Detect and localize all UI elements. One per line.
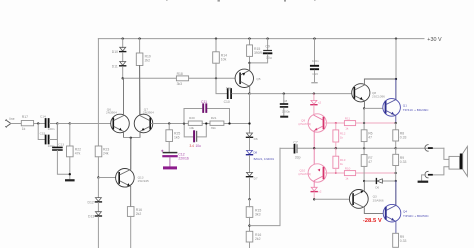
svg-text:10k: 10k: [221, 57, 227, 61]
svg-text:3.4: 3.4: [190, 144, 195, 148]
resistor R23: [95, 146, 102, 157]
diode D8 blue: [247, 150, 253, 154]
wire Q12 collector with arrow: [354, 181, 364, 196]
transistor Q12 2SA966: [349, 190, 368, 209]
diode D13: [95, 212, 101, 216]
wire C7 to output rail: [298, 147, 314, 149]
transistor Q9 2SA673 pink: [308, 114, 326, 132]
node A input split: [37, 122, 39, 124]
diode D12: [95, 198, 101, 202]
wire Q11 collector: [241, 82, 250, 94]
svg-text:0.33: 0.33: [400, 160, 407, 164]
wire R14 to node E: [215, 63, 217, 78]
wire Q8 base row: [250, 93, 354, 95]
capacitor C16 rail decoupling: [313, 37, 315, 39]
connector line input jack: [6, 120, 11, 127]
wire tail to Q13 collector: [130, 138, 132, 169]
diode D10: [120, 47, 126, 51]
wire D13 to bottom edge: [97, 217, 99, 248]
wire rail to R14: [215, 39, 217, 52]
resistor R21 39k: [210, 121, 224, 125]
wire R23 to node: [97, 157, 99, 178]
resistor R17 tail: [127, 207, 134, 217]
resistor R19 2k2: [136, 53, 143, 66]
wire R19 to Q7 collector: [139, 66, 141, 116]
node B C13 tap: [56, 122, 58, 124]
svg-text:0.33: 0.33: [400, 239, 407, 243]
diode D5 pink: [311, 187, 317, 191]
wire rail down to node O: [395, 39, 397, 99]
diode D9 horizontal: [377, 179, 382, 183]
wire D10 to D11: [122, 53, 124, 62]
wire node to D12: [97, 178, 99, 198]
node rail/R6R7: [363, 147, 365, 149]
svg-text:D10: D10: [112, 50, 118, 54]
svg-text:2SA966: 2SA966: [373, 198, 384, 202]
wire D4 to Q9 emitter: [313, 105, 315, 115]
wire R15 to Q11 emitter: [249, 56, 251, 70]
node rail/C9: [267, 38, 269, 40]
svg-text:C8: C8: [283, 99, 287, 103]
svg-text:10u: 10u: [266, 56, 272, 60]
wire C15 branch left riser: [38, 124, 45, 140]
wire R8 to output rail: [395, 141, 397, 148]
wire Q8 emitter with arrow: [355, 96, 364, 108]
wire jack to R17: [11, 123, 21, 125]
wire emitter tail bus: [124, 137, 141, 139]
wire Q12 emitter to Q4 base: [354, 202, 385, 213]
svg-text:D8: D8: [253, 151, 257, 155]
node N mid resistors: [248, 224, 250, 226]
diode D6: [247, 133, 253, 137]
wire rail to R19: [139, 39, 141, 53]
wire C12 to magenta ground: [169, 157, 171, 166]
wire R25 to C12: [168, 142, 170, 152]
svg-text:TIP41C + BD249C: TIP41C + BD249C: [403, 108, 429, 112]
wire R20 to R21: [202, 123, 210, 125]
resistor R13 pink column: [335, 148, 337, 156]
wire D12 to D13: [97, 203, 99, 212]
node R13/R10 row: [335, 172, 337, 174]
node L fb connects: [248, 122, 250, 124]
svg-text:220/16: 220/16: [178, 156, 188, 160]
resistor R7: [363, 148, 365, 154]
resistor R20 10k: [188, 121, 202, 125]
transistor Q4 TIP42C blue lower output: [383, 204, 401, 222]
transistor Q7 2N3904: [134, 114, 153, 133]
svg-text:100n: 100n: [312, 59, 319, 63]
svg-text:10p: 10p: [226, 86, 232, 90]
node H fb mid: [205, 122, 207, 124]
svg-text:1k: 1k: [22, 127, 26, 131]
connector speaker plus: [425, 145, 428, 152]
svg-text:R18: R18: [177, 72, 183, 76]
svg-text:Q5: Q5: [256, 77, 260, 81]
wire C13 stem: [56, 124, 58, 148]
node rail/R15: [248, 37, 250, 39]
node P: [363, 180, 365, 182]
wire R12 to output rail: [335, 142, 337, 148]
svg-text:x2: x2: [318, 189, 322, 193]
svg-text:2k2: 2k2: [136, 212, 142, 216]
capacitor C11 bracket risers: [184, 109, 230, 124]
wire C9 to node J: [250, 54, 268, 63]
wire Q7 base to feedback row: [151, 123, 188, 125]
svg-text:1k: 1k: [340, 162, 344, 166]
resistor R6: [361, 130, 367, 142]
svg-text:1k6: 1k6: [174, 135, 180, 139]
wire D7 to node M: [249, 178, 251, 200]
svg-text:2N3904: 2N3904: [143, 111, 154, 115]
node J C9 junction: [248, 62, 250, 64]
wire C10 to VAS collector node: [232, 93, 250, 95]
svg-text:C14: C14: [40, 114, 46, 118]
wire Q11 emitter with arrow: [241, 63, 250, 75]
resistor R12 pink column: [335, 123, 337, 130]
node C8 tap: [283, 92, 285, 94]
ground C8: [280, 116, 288, 118]
wire column R6: [363, 108, 365, 129]
svg-text:2SC945: 2SC945: [138, 179, 149, 183]
svg-text:0.33: 0.33: [400, 135, 407, 139]
node D9 right: [395, 180, 397, 182]
svg-text:+30 V: +30 V: [427, 37, 442, 43]
node rail/R14: [215, 37, 217, 39]
wire Q7 collector: [140, 66, 150, 121]
resistor R22 47k: [69, 124, 71, 147]
wire R16b to bottom edge: [249, 242, 251, 248]
svg-text:D6: D6: [254, 137, 258, 141]
wire R7 to node P: [363, 166, 365, 181]
svg-text:2k2: 2k2: [255, 237, 261, 241]
wire Q10 collector: [314, 148, 322, 170]
resistor R17 1k input: [21, 121, 33, 126]
node R22/C13 junction: [69, 173, 71, 175]
diode D4 pink: [313, 94, 315, 101]
wire C15 right riser: [50, 124, 58, 140]
node G fb left: [183, 122, 185, 124]
wire Q10 base to R10: [324, 172, 344, 174]
wire node B to node C: [57, 123, 69, 125]
node pink R12 tap: [335, 122, 337, 124]
svg-text:D6: D6: [375, 186, 379, 190]
node D4 tap: [313, 92, 315, 94]
wire +30V top rail: [98, 38, 424, 40]
resistor R8: [395, 123, 397, 130]
node R11/Q8emitter column: [363, 122, 365, 124]
svg-text:C10: C10: [224, 100, 230, 104]
svg-text:D12: D12: [88, 201, 94, 205]
wire D5 to lower row: [313, 192, 315, 199]
transistor Q1 TIP41C blue upper output: [383, 99, 401, 117]
svg-text:1k: 1k: [340, 136, 344, 140]
wire C13 to ground elbow: [57, 151, 69, 175]
svg-text:C15: C15: [40, 132, 46, 136]
svg-text:TIP42C + BD250C: TIP42C + BD250C: [403, 214, 429, 218]
diode D7: [247, 172, 253, 176]
wire Q9 base to R11: [324, 122, 344, 124]
wire Q10 emitter to D5: [314, 176, 322, 187]
svg-text:D13: D13: [88, 215, 94, 219]
header text specks: [218, 0, 220, 2]
svg-text:(2SA673): (2SA673): [298, 172, 311, 176]
node rail/D10: [122, 37, 124, 39]
svg-text:BAV21, 1N4001: BAV21, 1N4001: [254, 157, 275, 161]
capacitor C8 2200p: [283, 94, 285, 103]
speaker magnet bar: [460, 154, 463, 170]
wire D6 to D8: [249, 138, 251, 150]
svg-text:3k3: 3k3: [177, 82, 183, 86]
resistor R9: [395, 148, 397, 154]
wire D11 to node D: [122, 67, 124, 79]
capacitor C14: [46, 119, 49, 127]
node rail/outputs: [395, 37, 397, 39]
svg-text:(2SA673): (2SA673): [298, 122, 311, 126]
node output: [395, 147, 397, 149]
svg-text:47: 47: [368, 160, 372, 164]
capacitor C11 magenta: [203, 104, 206, 112]
svg-text:Q1: Q1: [403, 103, 407, 107]
wire R22 to ground: [69, 157, 71, 179]
wire R10 to lower emitter node: [356, 172, 396, 174]
svg-text:47: 47: [368, 135, 372, 139]
wire node C to Q6 base: [70, 123, 113, 125]
svg-text:47k: 47k: [75, 152, 81, 156]
resistor R10 pink: [344, 171, 355, 176]
wire R11 to output emitter node: [356, 122, 396, 124]
capacitor C13: [53, 147, 62, 150]
svg-text:10u: 10u: [196, 144, 202, 148]
svg-text:-28.5 V: -28.5 V: [363, 218, 382, 224]
svg-text:C16: C16: [312, 72, 318, 76]
svg-text:R20: R20: [189, 116, 195, 120]
node D5/row: [313, 198, 315, 200]
ground input: [65, 179, 75, 181]
ground C12 magenta: [163, 166, 177, 169]
ground speaker: [418, 181, 429, 183]
node tail: [130, 137, 132, 139]
svg-text:10k: 10k: [189, 126, 194, 130]
svg-text:1k: 1k: [345, 127, 349, 131]
wire Q6 emitter with arrow: [114, 127, 123, 138]
node Q1 emitter: [395, 122, 397, 124]
node R10 right: [395, 172, 397, 174]
wire to speaker box: [430, 148, 449, 175]
svg-text:390R: 390R: [254, 51, 263, 55]
wire Q7 emitter with arrow: [140, 127, 149, 138]
wire R9 down: [395, 166, 397, 205]
transistor Q11 VAS pnp: [235, 69, 253, 87]
node C R22 tap: [69, 122, 71, 124]
speaker cone outline: [463, 146, 468, 176]
capacitor C15: [46, 136, 49, 144]
svg-text:C7: C7: [293, 141, 297, 145]
wire C8 to ground: [283, 108, 285, 116]
wire rail to D10: [122, 39, 124, 48]
resistor R14 10k: [213, 52, 220, 63]
svg-text:3k3: 3k3: [255, 212, 261, 216]
capacitor 10u bracket under R20: [184, 125, 206, 137]
svg-text:1k: 1k: [345, 177, 349, 181]
wire Q1 emitter with arrow: [387, 111, 396, 123]
node I fb right: [228, 122, 230, 124]
svg-text:Q4: Q4: [403, 209, 407, 213]
node E R14 bottom: [215, 77, 217, 79]
svg-text:24k: 24k: [103, 152, 109, 156]
svg-text:2SC1096: 2SC1096: [372, 94, 385, 98]
svg-text:line: line: [10, 117, 15, 121]
svg-text:R10: R10: [345, 167, 351, 171]
svg-text:C13: C13: [58, 143, 64, 147]
wire R21 to bias column: [224, 123, 250, 125]
resistor R15 390R: [249, 39, 251, 45]
svg-text:C11: C11: [201, 100, 207, 104]
wire Q8 collector: [355, 79, 396, 90]
svg-text:C9: C9: [265, 45, 269, 49]
wire node D row to R18: [123, 77, 177, 79]
transistor Q6 2N3904: [111, 114, 130, 133]
svg-text:2200p: 2200p: [282, 110, 291, 114]
resistor R11 pink: [344, 121, 355, 126]
wire to ground speaker: [422, 175, 426, 181]
node D Q6 collector junction: [122, 77, 124, 79]
svg-text:D11: D11: [112, 64, 118, 68]
wire R17 to node A: [34, 123, 45, 125]
wire R6 to rail: [363, 142, 365, 149]
node M lower bias: [248, 198, 250, 200]
node R23/D12 junction: [97, 176, 99, 178]
wire Q9 collector top: [314, 115, 323, 120]
wire Q6 collector: [114, 78, 123, 120]
wire output to speaker: [396, 147, 444, 149]
node F fb shunt tap: [168, 122, 170, 124]
wire D9 row: [364, 180, 396, 182]
wire R18 to Q11 base: [189, 77, 240, 79]
capacitor C9 10u: [267, 39, 269, 50]
connector speaker minus: [425, 171, 428, 178]
wire base drive to Q1: [364, 107, 385, 109]
node Q8 emitter/base drive: [363, 107, 365, 109]
wire left feedback column top: [97, 39, 99, 146]
svg-text:D7: D7: [254, 176, 258, 180]
capacitor C7 33p: [280, 147, 294, 149]
wire Q1 collector: [387, 79, 396, 104]
svg-text:2k2: 2k2: [145, 59, 151, 63]
wire Q9 emitter with arrow: [314, 126, 322, 148]
svg-text:R21: R21: [211, 116, 217, 120]
node rail/Q9Q10 collectors: [313, 147, 315, 149]
wire Q4 emitter with arrow: [387, 217, 396, 234]
wire Q13 base: [98, 177, 118, 179]
node rail/R19: [138, 37, 140, 39]
speaker LS driver box: [449, 156, 460, 169]
resistor R18 3k3: [176, 76, 188, 81]
node K VAS out: [248, 92, 250, 94]
node rail/R12: [335, 147, 337, 149]
wire Q4 collector: [387, 181, 396, 210]
svg-text:39k: 39k: [211, 126, 216, 130]
wire output rail: [314, 147, 396, 149]
svg-text:100n: 100n: [48, 127, 55, 131]
wire Q12 base row: [314, 198, 352, 200]
wire bias column upper: [249, 94, 251, 133]
wire R17 to bottom edge: [130, 216, 132, 248]
wire C14 right: [50, 123, 58, 125]
capacitor C12 220u electrolytic: [163, 152, 176, 154]
diode D11: [120, 62, 126, 66]
wire node E down to C10: [216, 78, 227, 93]
capacitor C10 10p: [228, 89, 231, 98]
transistor Q13 2SC945: [116, 169, 135, 188]
wire C7 column: [250, 148, 281, 225]
resistor R15b: [246, 207, 253, 218]
transistor Q10 2SA673 pink: [308, 164, 326, 182]
wire Q13 emitter with arrow: [120, 181, 131, 207]
svg-text:x2: x2: [318, 100, 322, 104]
svg-text:33p: 33p: [295, 156, 301, 160]
resistor R16b: [246, 231, 253, 242]
resistor R9b bottom cut: [393, 233, 399, 247]
wire D8 to D7: [249, 156, 251, 173]
svg-text:R11: R11: [345, 117, 351, 121]
resistor R25 1k6: [168, 124, 170, 130]
svg-text:2N3904: 2N3904: [106, 111, 117, 115]
wire Q13 collector: [120, 138, 131, 175]
transistor Q8 2SC1096: [352, 84, 370, 102]
node O collector junction: [395, 78, 397, 80]
svg-text:R17: R17: [22, 115, 28, 119]
